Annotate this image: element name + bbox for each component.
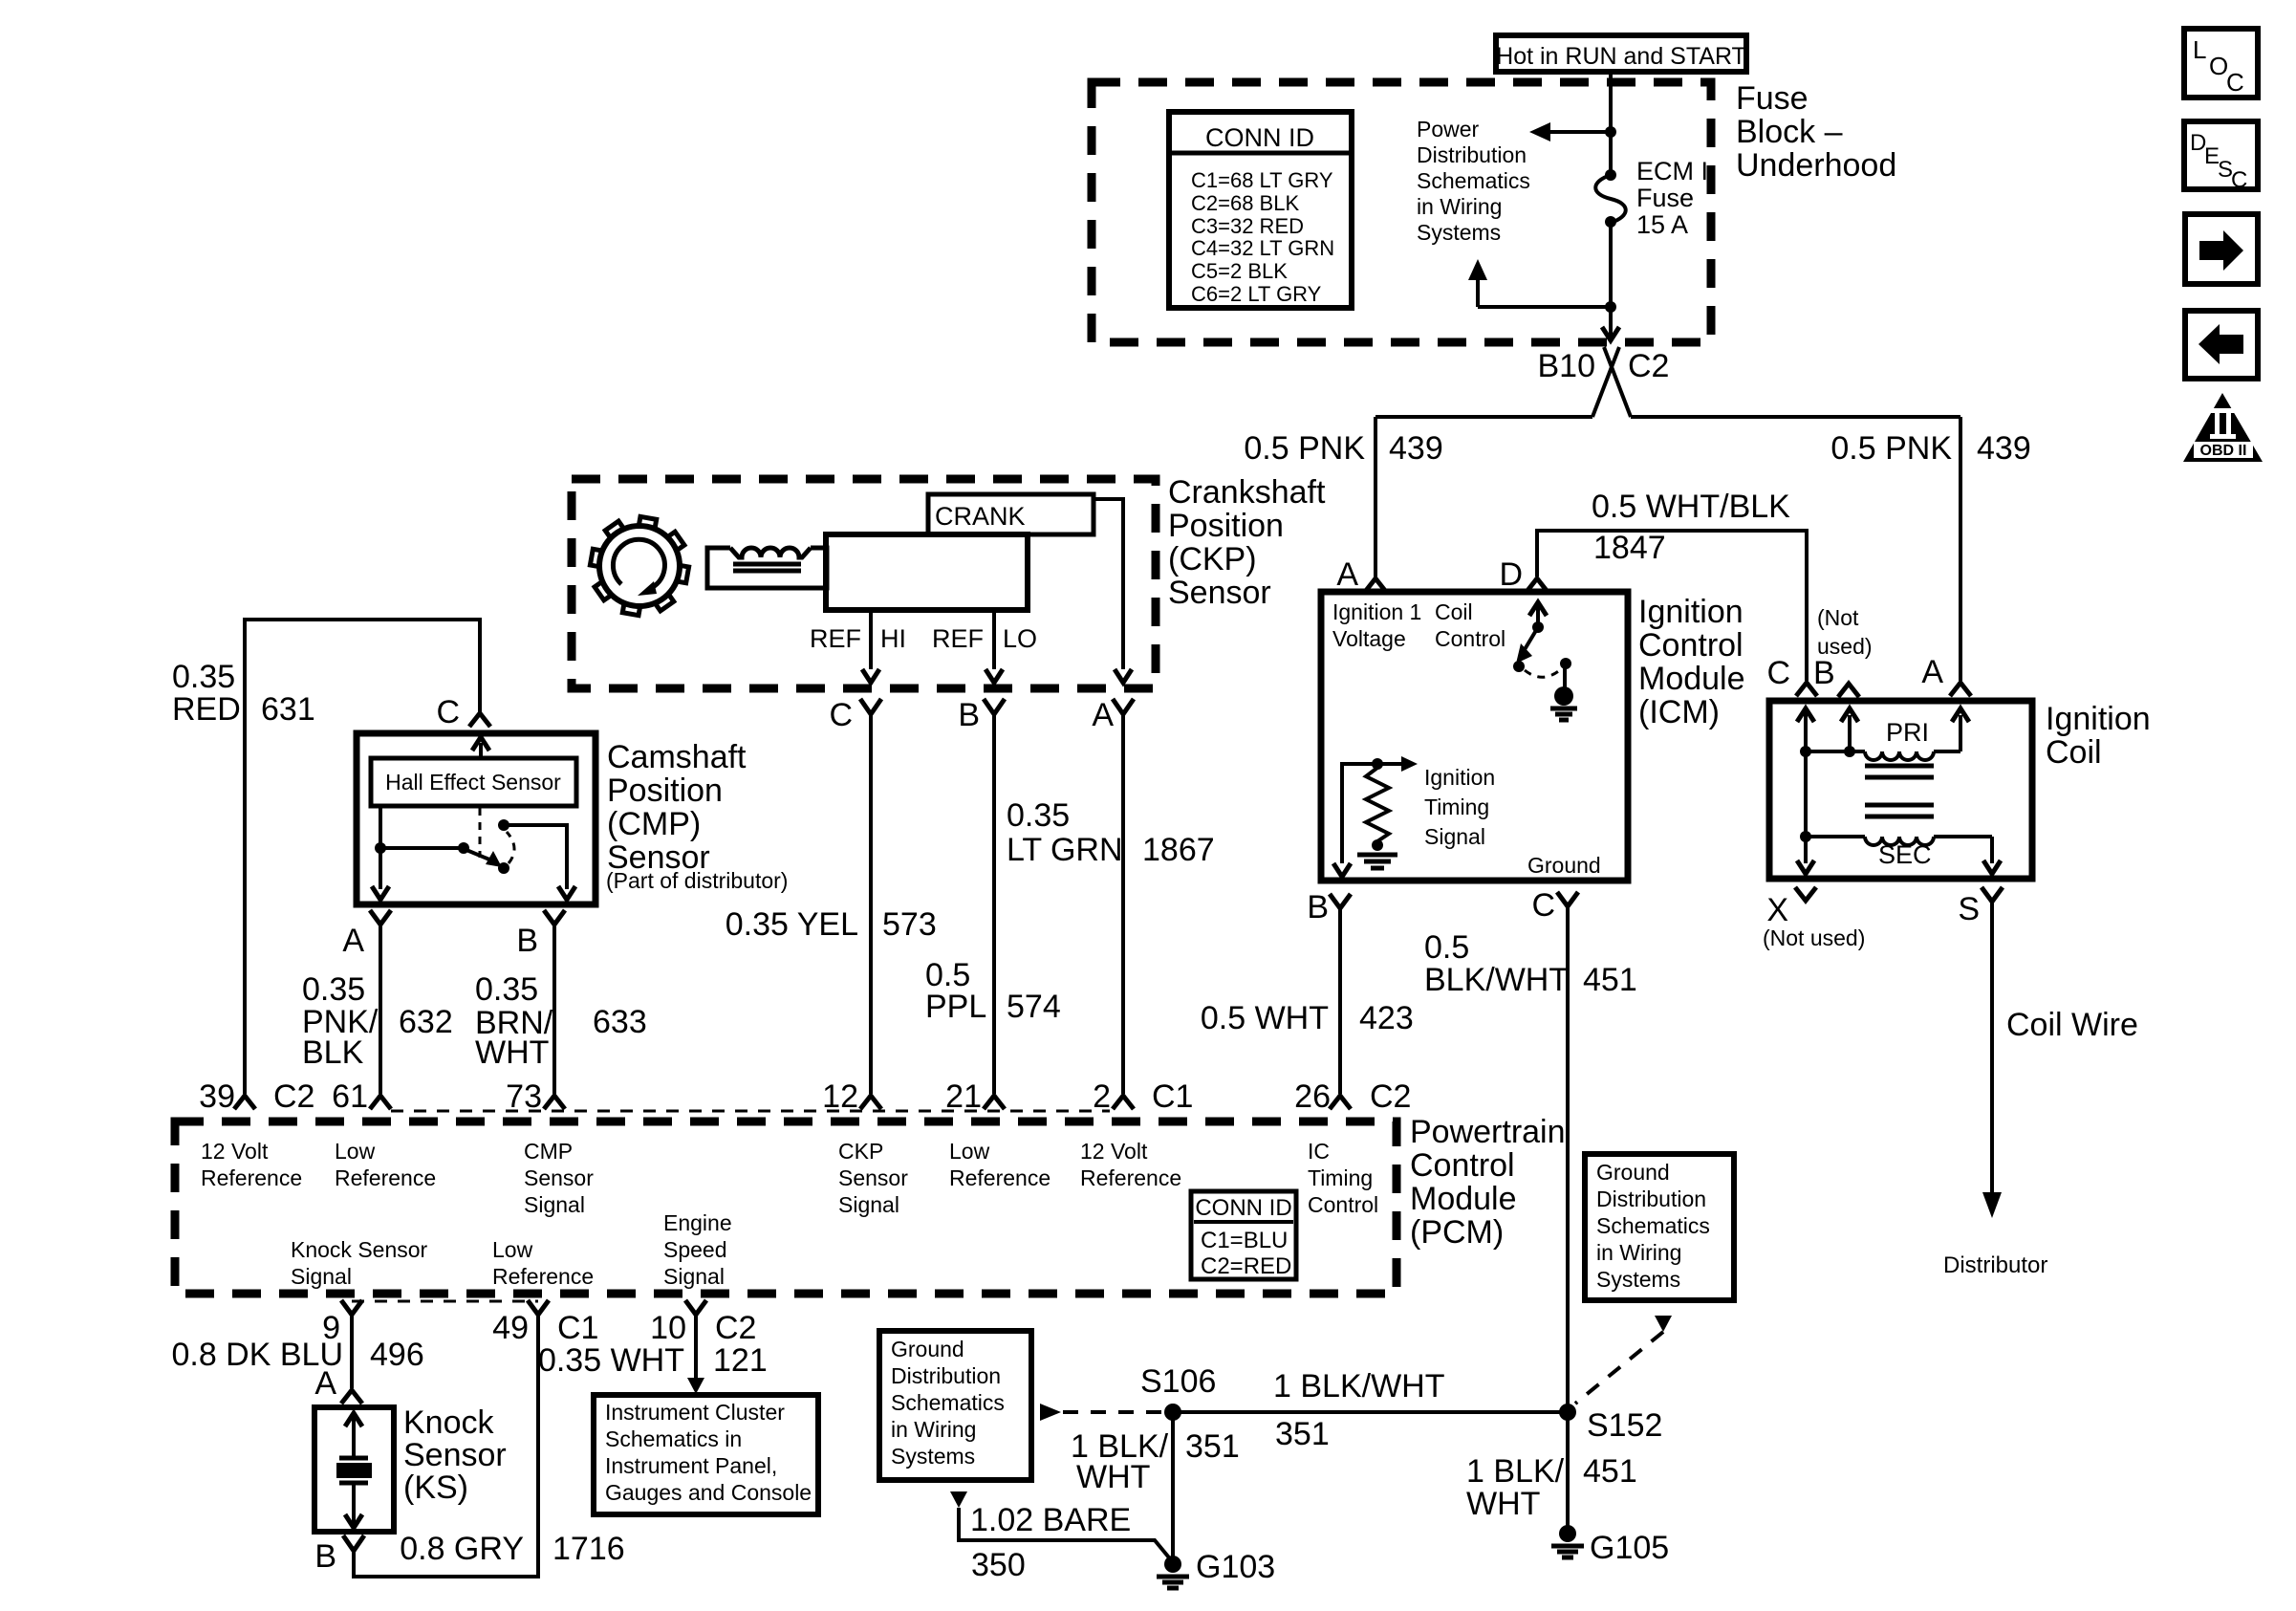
label Knock Sensor Signal (pin 9) bbox=[291, 1237, 428, 1289]
svg-text:Ground: Ground bbox=[1596, 1160, 1670, 1185]
wire branch up-arrow (from power distribution) bbox=[1468, 259, 1611, 307]
svg-text:Signal: Signal bbox=[838, 1192, 899, 1217]
svg-text:Distribution: Distribution bbox=[891, 1363, 1001, 1388]
svg-text:CMP: CMP bbox=[524, 1139, 573, 1164]
wire 574 0.5 PPL CKP B to PCM 21 bbox=[992, 714, 996, 1094]
connector pin 9 at PCM bottom bbox=[341, 1300, 362, 1315]
wire from Hot in RUN into fuse bbox=[1609, 72, 1613, 132]
svg-text:C2: C2 bbox=[273, 1078, 314, 1115]
svg-text:Instrument Cluster: Instrument Cluster bbox=[605, 1400, 785, 1425]
svg-text:451: 451 bbox=[1583, 1453, 1637, 1490]
svg-text:Instrument Panel,: Instrument Panel, bbox=[605, 1453, 777, 1478]
svg-text:Signal: Signal bbox=[524, 1192, 585, 1217]
svg-text:C: C bbox=[2226, 68, 2244, 97]
label Ignition 1 Voltage bbox=[1332, 599, 1421, 651]
wire REF LO to pin B bbox=[986, 610, 1003, 683]
svg-text:1716: 1716 bbox=[552, 1531, 625, 1567]
svg-text:26: 26 bbox=[1294, 1078, 1331, 1115]
label 1 BLK/WHT vertical bbox=[1071, 1428, 1169, 1495]
connector pin C of CKP bbox=[860, 699, 881, 714]
svg-text:Ignition 1: Ignition 1 bbox=[1332, 599, 1421, 624]
svg-text:(ICM): (ICM) bbox=[1638, 694, 1720, 730]
label Ignition Control Module (ICM) bbox=[1638, 594, 1745, 730]
svg-text:61: 61 bbox=[332, 1078, 368, 1115]
svg-text:1.02 BARE: 1.02 BARE bbox=[970, 1502, 1131, 1538]
svg-text:12: 12 bbox=[822, 1078, 858, 1115]
svg-text:CONN ID: CONN ID bbox=[1205, 123, 1314, 152]
label Ignition Coil bbox=[2046, 701, 2151, 771]
svg-text:B: B bbox=[958, 697, 980, 733]
svg-text:1 BLK/WHT: 1 BLK/WHT bbox=[1273, 1368, 1444, 1404]
label Camshaft Position (CMP) Sensor bbox=[606, 739, 788, 893]
icon OBD II triangle bbox=[2183, 393, 2263, 462]
dashed wire to S106 bbox=[1063, 1410, 1164, 1414]
svg-text:D: D bbox=[1499, 556, 1523, 593]
svg-text:PRI: PRI bbox=[1886, 718, 1929, 747]
svg-text:Knock: Knock bbox=[403, 1404, 494, 1441]
svg-text:G105: G105 bbox=[1590, 1530, 1669, 1566]
wire 423 0.5 WHT from ICM B to PCM 26 bbox=[1338, 908, 1342, 1094]
CMP dashed arc bbox=[507, 832, 514, 863]
svg-text:C2: C2 bbox=[1370, 1078, 1411, 1115]
svg-text:1867: 1867 bbox=[1142, 832, 1215, 868]
label Fuse Block - Underhood bbox=[1736, 80, 1896, 184]
svg-text:Distributor: Distributor bbox=[1943, 1252, 2047, 1278]
svg-text:A: A bbox=[1092, 697, 1114, 733]
svg-text:Systems: Systems bbox=[891, 1444, 975, 1469]
label Low Reference (pin 61) bbox=[335, 1139, 436, 1190]
svg-text:Control: Control bbox=[1410, 1147, 1515, 1184]
Crankshaft Position (CKP) Sensor dashed box bbox=[572, 479, 1156, 688]
wire 496 0.8 DK BLU PCM 9 to knock sensor A bbox=[350, 1315, 354, 1388]
svg-text:Ignition: Ignition bbox=[1638, 594, 1744, 630]
label REF HI bbox=[810, 624, 906, 653]
svg-text:Reference: Reference bbox=[949, 1165, 1051, 1190]
svg-text:used): used) bbox=[1817, 634, 1873, 659]
svg-text:0.35: 0.35 bbox=[1007, 797, 1070, 834]
svg-text:49: 49 bbox=[492, 1310, 529, 1346]
connector pin B of knock sensor bbox=[343, 1535, 364, 1551]
svg-text:Sensor: Sensor bbox=[524, 1165, 594, 1190]
wire 1847 0.5 WHT/BLK bbox=[1537, 531, 1807, 681]
svg-text:Systems: Systems bbox=[1596, 1267, 1680, 1292]
svg-text:0.5 WHT: 0.5 WHT bbox=[1201, 1000, 1329, 1036]
connector pin A of ICM bbox=[1365, 578, 1386, 592]
connector pin 39 C2 at PCM bbox=[234, 1096, 255, 1109]
dashed wire to S152 bbox=[1575, 1332, 1663, 1404]
svg-text:REF: REF bbox=[932, 624, 984, 653]
svg-text:WHT: WHT bbox=[475, 1034, 549, 1071]
Hot in RUN and START box bbox=[1496, 35, 1746, 72]
splice S152 bbox=[1559, 1404, 1576, 1421]
svg-text:350: 350 bbox=[971, 1547, 1026, 1583]
svg-text:Powertrain: Powertrain bbox=[1410, 1114, 1566, 1150]
arrow from ground distribution box to S106 bbox=[1040, 1404, 1061, 1421]
connector pin D of ICM bbox=[1527, 578, 1548, 592]
svg-text:0.8 GRY: 0.8 GRY bbox=[400, 1531, 524, 1567]
svg-text:C1: C1 bbox=[1152, 1078, 1193, 1115]
svg-text:Low: Low bbox=[949, 1139, 990, 1164]
Knock Sensor (KS) box bbox=[314, 1407, 394, 1532]
svg-text:Camshaft: Camshaft bbox=[607, 739, 747, 775]
svg-text:C6=2 LT GRY: C6=2 LT GRY bbox=[1191, 282, 1322, 306]
label Engine Speed Signal (pin 10) bbox=[663, 1210, 732, 1289]
svg-text:Reference: Reference bbox=[201, 1165, 302, 1190]
ground G105 bbox=[1551, 1525, 1584, 1557]
connector pin A of CKP bbox=[1113, 699, 1134, 714]
svg-text:LT GRN: LT GRN bbox=[1007, 832, 1123, 868]
svg-text:73: 73 bbox=[506, 1078, 542, 1115]
label 1 BLK/WHT below S152 bbox=[1466, 1453, 1565, 1522]
Ignition Control Module (ICM) box bbox=[1321, 592, 1628, 881]
svg-text:Coil Wire: Coil Wire bbox=[2006, 1007, 2138, 1043]
svg-text:Distribution: Distribution bbox=[1596, 1186, 1706, 1211]
svg-text:Ground: Ground bbox=[891, 1337, 964, 1361]
svg-text:451: 451 bbox=[1583, 962, 1637, 998]
label 12 Volt Reference (pin 39) bbox=[201, 1139, 302, 1190]
svg-text:(Part of distributor): (Part of distributor) bbox=[606, 868, 788, 893]
connector pin C of CMP bbox=[469, 713, 490, 727]
wire 631 0.35 RED from PCM 39 up and over to CMP C bbox=[245, 620, 480, 1094]
svg-text:2: 2 bbox=[1093, 1078, 1111, 1115]
icon LOC button bbox=[2184, 29, 2258, 98]
wire 451 0.5 BLK/WHT from ICM C down to G105 bbox=[1566, 906, 1570, 1534]
icon DESC button bbox=[2184, 121, 2258, 193]
svg-text:in Wiring: in Wiring bbox=[891, 1417, 976, 1442]
svg-text:Position: Position bbox=[607, 773, 723, 809]
CKP reluctor gear bbox=[590, 516, 688, 615]
svg-text:Control: Control bbox=[1308, 1192, 1378, 1217]
svg-text:C1=BLU: C1=BLU bbox=[1201, 1228, 1288, 1253]
svg-text:Ground: Ground bbox=[1527, 853, 1601, 878]
wire 632 0.35 PNK/BLK CMP A to PCM 61 bbox=[379, 925, 382, 1094]
connector pin B of CKP bbox=[984, 699, 1005, 714]
label CMP Sensor Signal (pin 73) bbox=[524, 1139, 594, 1217]
wire horizontal left branch 0.5 PNK 439 bbox=[1375, 415, 1592, 419]
wire from fuse to bottom of fuse block bbox=[1609, 222, 1613, 307]
svg-text:(PCM): (PCM) bbox=[1410, 1214, 1504, 1251]
connector pin X of coil (not used) bbox=[1795, 887, 1816, 901]
svg-text:A: A bbox=[342, 923, 364, 959]
svg-text:Power: Power bbox=[1417, 117, 1480, 142]
svg-text:Gauges and Console: Gauges and Console bbox=[605, 1480, 812, 1505]
svg-text:Fuse: Fuse bbox=[1736, 80, 1809, 117]
svg-text:496: 496 bbox=[370, 1337, 424, 1373]
svg-text:(Not: (Not bbox=[1817, 605, 1859, 630]
ICM switch ground symbol bbox=[1550, 686, 1577, 720]
svg-text:(CMP): (CMP) bbox=[607, 806, 701, 842]
svg-text:Reference: Reference bbox=[1080, 1165, 1181, 1190]
wire 439 down to coil pin A bbox=[1959, 417, 1962, 681]
wire 350 1.02 BARE to G103 bbox=[950, 1491, 1173, 1562]
CONN ID table (fuse block) bbox=[1169, 112, 1352, 308]
connector pin 2 C1 at PCM bbox=[1113, 1096, 1134, 1109]
svg-text:Voltage: Voltage bbox=[1332, 626, 1406, 651]
svg-text:Sensor: Sensor bbox=[1168, 575, 1271, 611]
svg-text:Signal: Signal bbox=[663, 1264, 725, 1289]
label (Not used) top bbox=[1817, 605, 1873, 659]
svg-text:C4=32 LT GRN: C4=32 LT GRN bbox=[1191, 236, 1334, 260]
svg-text:C: C bbox=[1766, 655, 1790, 691]
svg-text:(Not used): (Not used) bbox=[1763, 925, 1865, 950]
svg-text:G103: G103 bbox=[1196, 1549, 1275, 1585]
CMP fixed contact to output B bbox=[498, 819, 575, 900]
svg-text:121: 121 bbox=[713, 1342, 768, 1379]
svg-text:Underhood: Underhood bbox=[1736, 147, 1896, 184]
svg-text:C1: C1 bbox=[557, 1310, 598, 1346]
CMP dashed control line bbox=[479, 808, 482, 858]
Camshaft Position (CMP) Sensor box bbox=[357, 733, 596, 904]
svg-text:574: 574 bbox=[1007, 989, 1061, 1025]
svg-text:1 BLK/: 1 BLK/ bbox=[1466, 1453, 1565, 1490]
svg-text:1847: 1847 bbox=[1593, 530, 1666, 566]
svg-text:Signal: Signal bbox=[1424, 824, 1485, 849]
label Low Reference (pin 49) bbox=[492, 1237, 594, 1289]
svg-text:C2: C2 bbox=[715, 1310, 756, 1346]
svg-text:Ignition: Ignition bbox=[1424, 765, 1495, 790]
svg-text:C: C bbox=[436, 694, 460, 730]
Powertrain Control Module (PCM) dashed box bbox=[175, 1121, 1397, 1294]
svg-text:B10: B10 bbox=[1538, 348, 1596, 384]
svg-text:WHT: WHT bbox=[1466, 1486, 1540, 1522]
svg-text:Sensor: Sensor bbox=[403, 1437, 507, 1473]
splice B10 / C2 X symbol bbox=[1592, 347, 1631, 417]
connector pin S of coil bbox=[1982, 887, 2003, 902]
connector pin A of coil bbox=[1950, 683, 1971, 696]
label Coil Control bbox=[1435, 599, 1505, 651]
CMP hall sensor output leg A bbox=[372, 806, 469, 900]
svg-text:A: A bbox=[1336, 556, 1358, 593]
svg-text:Reference: Reference bbox=[335, 1165, 436, 1190]
svg-text:Knock Sensor: Knock Sensor bbox=[291, 1237, 428, 1262]
svg-text:Schematics in: Schematics in bbox=[605, 1426, 742, 1451]
ICM coil control switch bbox=[1513, 602, 1571, 687]
svg-text:Timing: Timing bbox=[1308, 1165, 1373, 1190]
svg-text:351: 351 bbox=[1275, 1416, 1330, 1452]
svg-text:A: A bbox=[1921, 654, 1943, 690]
connector pin A of knock sensor bbox=[341, 1390, 362, 1404]
label ECM I Fuse 15 A bbox=[1636, 157, 1708, 239]
label Ignition Timing Signal bbox=[1424, 765, 1495, 849]
connector pin 61 at PCM bbox=[370, 1096, 391, 1109]
svg-text:IC: IC bbox=[1308, 1139, 1330, 1164]
PCM bottom connector dashed line bbox=[352, 1300, 538, 1303]
svg-text:573: 573 bbox=[882, 906, 937, 943]
ICM ignition timing signal resistor branch bbox=[1333, 756, 1418, 877]
svg-text:C2=68 BLK: C2=68 BLK bbox=[1191, 191, 1299, 215]
svg-text:Coil: Coil bbox=[1435, 599, 1473, 624]
connector pin B of CMP bbox=[544, 910, 565, 925]
connector pin 10 C2 at PCM bottom bbox=[685, 1300, 706, 1315]
label CKP Sensor Signal (pin 12) bbox=[838, 1139, 908, 1217]
svg-text:Ignition: Ignition bbox=[2046, 701, 2151, 737]
svg-text:Control: Control bbox=[1435, 626, 1505, 651]
svg-text:RED: RED bbox=[172, 691, 241, 728]
connector pin 73 at PCM bbox=[544, 1096, 565, 1109]
icon left-arrow button bbox=[2185, 311, 2258, 379]
svg-text:0.5: 0.5 bbox=[1424, 929, 1469, 966]
label 12 Volt Reference (pin 2) bbox=[1080, 1139, 1181, 1190]
connector pin C of coil bbox=[1796, 683, 1817, 696]
svg-text:Hall Effect Sensor: Hall Effect Sensor bbox=[385, 770, 561, 795]
coil X branch down arrow bbox=[1797, 837, 1814, 874]
svg-text:Systems: Systems bbox=[1417, 220, 1501, 245]
svg-text:0.5 WHT/BLK: 0.5 WHT/BLK bbox=[1592, 489, 1790, 525]
svg-text:C1=68 LT GRY: C1=68 LT GRY bbox=[1191, 168, 1333, 192]
label IC Timing Control (pin 26) bbox=[1308, 1139, 1378, 1217]
svg-text:0.35: 0.35 bbox=[302, 971, 365, 1008]
CKP pickup coil element bbox=[707, 543, 827, 588]
fuse ECM I 15 A bbox=[1595, 169, 1626, 228]
svg-text:Reference: Reference bbox=[492, 1264, 594, 1289]
svg-text:C: C bbox=[829, 697, 853, 733]
svg-text:Position: Position bbox=[1168, 508, 1284, 544]
svg-text:439: 439 bbox=[1977, 430, 2031, 467]
svg-text:Low: Low bbox=[492, 1237, 533, 1262]
Ground Distribution schematics box (left) bbox=[879, 1331, 1031, 1480]
svg-text:BLK: BLK bbox=[302, 1034, 364, 1071]
wire 351 1 BLK/WHT from S106 to S152 bbox=[1173, 1410, 1568, 1414]
svg-text:PPL: PPL bbox=[925, 989, 986, 1025]
svg-text:Coil: Coil bbox=[2046, 734, 2102, 771]
CKP sensor body box bbox=[826, 534, 1028, 610]
CMP switch blade bbox=[466, 850, 509, 874]
svg-text:Sensor: Sensor bbox=[838, 1165, 908, 1190]
wire 573 0.35 YEL CKP C to PCM 12 bbox=[869, 714, 873, 1094]
svg-text:OBD II: OBD II bbox=[2200, 443, 2247, 459]
wire 1867 0.35 LT GRN CKP A to PCM 2 bbox=[1121, 714, 1125, 1094]
connector pin B of ICM bbox=[1330, 894, 1351, 908]
CRANK connector box bbox=[928, 494, 1094, 534]
Fuse Block - Underhood dashed box bbox=[1092, 82, 1711, 342]
svg-text:Timing: Timing bbox=[1424, 795, 1489, 819]
ground G103 bbox=[1157, 1556, 1189, 1588]
svg-text:12 Volt: 12 Volt bbox=[1080, 1139, 1148, 1164]
svg-text:439: 439 bbox=[1389, 430, 1443, 467]
connector pin C of ICM bbox=[1557, 892, 1578, 906]
svg-text:WHT: WHT bbox=[1076, 1459, 1150, 1495]
svg-text:632: 632 bbox=[399, 1004, 453, 1040]
wire to fuse top bbox=[1609, 132, 1613, 175]
junction dot bbox=[1605, 126, 1616, 138]
svg-text:CONN ID: CONN ID bbox=[1195, 1195, 1291, 1221]
icon right-arrow button bbox=[2185, 214, 2258, 284]
arrow from right ground distribution box bbox=[1655, 1316, 1672, 1332]
svg-text:C2=RED: C2=RED bbox=[1201, 1253, 1291, 1279]
connector pin 26 C2 at PCM bbox=[1330, 1096, 1351, 1109]
label 0.5 BLK/WHT bbox=[1424, 929, 1569, 998]
svg-text:Schematics: Schematics bbox=[1417, 168, 1530, 193]
wire REF HI to pin C bbox=[862, 610, 879, 683]
svg-text:Speed: Speed bbox=[663, 1237, 727, 1262]
svg-text:Signal: Signal bbox=[291, 1264, 352, 1289]
svg-text:15 A: 15 A bbox=[1636, 210, 1688, 239]
coil primary winding PRI bbox=[1797, 708, 1969, 760]
svg-text:0.35: 0.35 bbox=[172, 659, 235, 695]
label 0.35 PNK/BLK bbox=[302, 971, 379, 1071]
svg-text:HI: HI bbox=[880, 624, 906, 653]
label 0.35 BRN/WHT bbox=[475, 971, 553, 1071]
connector pin A of CMP bbox=[370, 910, 391, 925]
svg-text:B: B bbox=[1307, 889, 1329, 925]
svg-text:Block –: Block – bbox=[1736, 114, 1843, 150]
wire horizontal right branch 0.5 PNK 439 bbox=[1631, 415, 1960, 419]
CMP arrow to pin C bbox=[472, 737, 489, 758]
svg-text:Crankshaft: Crankshaft bbox=[1168, 474, 1326, 511]
svg-text:0.5 PNK: 0.5 PNK bbox=[1830, 430, 1952, 467]
svg-text:423: 423 bbox=[1359, 1000, 1414, 1036]
svg-text:C: C bbox=[1531, 887, 1555, 924]
svg-text:631: 631 bbox=[261, 691, 315, 728]
connector pin B of coil (not used) bbox=[1838, 684, 1859, 697]
svg-text:CRANK: CRANK bbox=[935, 502, 1026, 531]
svg-text:C3=32 RED: C3=32 RED bbox=[1191, 214, 1304, 238]
svg-text:10: 10 bbox=[650, 1310, 686, 1346]
Hall Effect Sensor box bbox=[371, 758, 576, 806]
Ground Distribution schematics box (right) bbox=[1585, 1154, 1734, 1300]
wire 351 1 BLK/WHT from S106 down to G103 bbox=[1171, 1412, 1175, 1562]
svg-text:Engine: Engine bbox=[663, 1210, 732, 1235]
label Crankshaft Position (CKP) Sensor bbox=[1168, 474, 1326, 611]
svg-text:SEC: SEC bbox=[1878, 840, 1932, 869]
svg-text:LO: LO bbox=[1003, 624, 1037, 653]
svg-text:B: B bbox=[516, 923, 538, 959]
svg-text:Hot in RUN and START: Hot in RUN and START bbox=[1496, 43, 1746, 70]
svg-text:(CKP): (CKP) bbox=[1168, 541, 1257, 577]
svg-text:BLK/WHT: BLK/WHT bbox=[1424, 962, 1569, 998]
svg-text:12 Volt: 12 Volt bbox=[201, 1139, 269, 1164]
coil secondary winding SEC bbox=[1800, 751, 2001, 874]
svg-text:in Wiring: in Wiring bbox=[1596, 1240, 1681, 1265]
wire branch to power distribution (left arrow) bbox=[1529, 122, 1611, 142]
label 0.5 PPL bbox=[925, 957, 986, 1025]
svg-text:Module: Module bbox=[1410, 1181, 1517, 1217]
svg-text:S: S bbox=[1958, 891, 1980, 927]
splice S106 bbox=[1164, 1404, 1181, 1421]
connector pin 49 C1 at PCM bottom bbox=[528, 1300, 549, 1315]
label Knock Sensor (KS) bbox=[403, 1404, 507, 1506]
svg-text:C: C bbox=[2231, 167, 2247, 193]
svg-text:X: X bbox=[1766, 892, 1788, 928]
wire down to ICM pin A bbox=[1374, 417, 1377, 577]
svg-text:0.35 WHT: 0.35 WHT bbox=[538, 1342, 684, 1379]
svg-text:39: 39 bbox=[199, 1078, 235, 1115]
coil transformer core bbox=[1865, 766, 1934, 816]
label Power Distribution Schematics in Wiring Systems bbox=[1417, 117, 1530, 245]
label Powertrain Control Module (PCM) bbox=[1410, 1114, 1566, 1251]
PCM connector dashed line bbox=[391, 1110, 1110, 1113]
wire 121 0.35 WHT PCM 10 to instrument cluster bbox=[687, 1315, 704, 1394]
svg-text:in Wiring: in Wiring bbox=[1417, 194, 1502, 219]
svg-text:CKP: CKP bbox=[838, 1139, 883, 1164]
svg-text:Schematics: Schematics bbox=[1596, 1213, 1710, 1238]
svg-text:351: 351 bbox=[1185, 1428, 1240, 1465]
svg-text:B: B bbox=[1813, 655, 1835, 691]
svg-text:0.5 PNK: 0.5 PNK bbox=[1244, 430, 1365, 467]
svg-text:(KS): (KS) bbox=[403, 1469, 468, 1506]
svg-text:Low: Low bbox=[335, 1139, 376, 1164]
svg-text:633: 633 bbox=[593, 1004, 647, 1040]
svg-text:REF: REF bbox=[810, 624, 861, 653]
svg-text:ECM I: ECM I bbox=[1636, 157, 1708, 185]
Instrument Cluster schematics box bbox=[594, 1395, 818, 1514]
knock sensor element bbox=[336, 1413, 372, 1528]
CONN ID table (PCM) bbox=[1191, 1191, 1296, 1279]
wire 633 0.35 BRN/WHT CMP B to PCM 73 bbox=[552, 925, 556, 1094]
Ignition Coil box bbox=[1769, 701, 2032, 879]
label REF LO bbox=[932, 624, 1037, 653]
svg-text:21: 21 bbox=[945, 1078, 982, 1115]
